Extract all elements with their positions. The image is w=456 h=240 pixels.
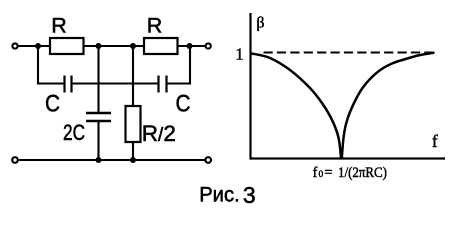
wire from J3 down to R/2 <box>132 46 134 106</box>
wire capacitor rail middle <box>73 82 159 84</box>
wire top rail right segment <box>178 45 206 47</box>
terminal bottom-left <box>12 157 18 163</box>
node J6 (R/2 to bottom rail) <box>130 157 136 163</box>
resistor R1 <box>50 38 84 54</box>
capacitor 2C <box>86 113 111 121</box>
svg-text:2C: 2C <box>63 120 85 145</box>
wire top rail middle segment <box>84 45 145 47</box>
svg-text:f0=1/(2πRC): f0=1/(2πRC) <box>313 165 388 181</box>
notch response curve right branch <box>342 53 434 158</box>
svg-text:1: 1 <box>235 44 244 63</box>
node J3 (top rail over R/2) <box>130 43 136 49</box>
capacitor C1 <box>65 76 72 93</box>
terminal bottom-right <box>205 157 211 163</box>
svg-text:C: C <box>176 91 191 118</box>
notch response curve left branch <box>252 54 342 158</box>
capacitor C2 <box>159 76 167 93</box>
terminal output top-right <box>206 43 211 48</box>
node J4 (right top junction) <box>187 43 193 49</box>
resistor R/2 <box>126 106 141 142</box>
svg-text:R: R <box>51 13 67 37</box>
graph y-axis (beta axis) <box>249 13 251 160</box>
dashed line beta=1 <box>264 52 434 54</box>
svg-text:C: C <box>45 91 60 118</box>
svg-text:R/2: R/2 <box>142 121 176 146</box>
graph x-axis (f axis) <box>250 157 446 159</box>
wire top rail left segment <box>18 45 50 47</box>
node J5 (2C to bottom rail) <box>96 157 102 163</box>
svg-text:3: 3 <box>243 182 256 208</box>
wire from R/2 down to bottom rail <box>132 142 134 160</box>
wire left branch down from J1 <box>38 46 64 84</box>
svg-text:R: R <box>147 13 163 37</box>
wire from 2C down to bottom rail <box>97 122 99 160</box>
terminal input top-left <box>12 43 17 48</box>
wire right branch up to J4 <box>168 46 191 84</box>
svg-text:f: f <box>432 131 438 151</box>
svg-text:β: β <box>256 15 264 32</box>
node J1 (left top junction) <box>35 43 41 49</box>
svg-text:Рис.: Рис. <box>199 182 240 206</box>
resistor R2 <box>144 38 178 54</box>
node J2 (R-R midpoint) <box>96 43 102 49</box>
wire bottom rail <box>19 159 205 161</box>
wire from J2 down to 2C <box>97 46 99 112</box>
